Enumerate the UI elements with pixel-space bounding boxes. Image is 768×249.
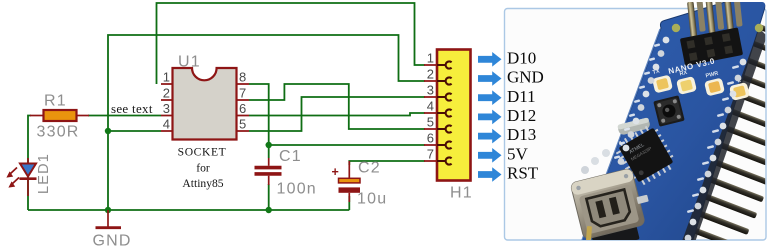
svg-text:2: 2 bbox=[163, 86, 170, 101]
svg-text:4: 4 bbox=[427, 99, 434, 114]
USB solder tab pads bbox=[602, 149, 610, 157]
wire net VCC: U1 pin8 down to C1 and H1 pin6 bbox=[249, 84, 269, 158]
arrow GND bbox=[478, 71, 502, 86]
mini USB connector bbox=[570, 168, 648, 249]
ATmega chip bbox=[612, 122, 679, 189]
IC socket U1 bbox=[161, 54, 249, 191]
resistor R1 bbox=[30, 93, 89, 141]
crystal oscillator bbox=[617, 117, 651, 135]
svg-text:R1: R1 bbox=[44, 93, 67, 110]
svg-text:+: + bbox=[332, 165, 339, 179]
svg-text:7: 7 bbox=[427, 147, 434, 162]
photo frame bbox=[505, 9, 767, 241]
tactile button bbox=[653, 95, 685, 127]
svg-text:RST: RST bbox=[507, 164, 539, 183]
header plastic strip under right edge bbox=[681, 28, 767, 248]
H1 pin numbers bbox=[427, 51, 434, 162]
svg-text:7: 7 bbox=[239, 86, 246, 101]
board left edge highlight bbox=[579, 29, 660, 248]
arrow D12 bbox=[478, 110, 502, 125]
svg-text:H1: H1 bbox=[450, 185, 473, 202]
svg-text:U1: U1 bbox=[178, 54, 201, 71]
H1 pin sockets bbox=[437, 61, 452, 164]
svg-text:for: for bbox=[196, 162, 210, 175]
svg-text:SOCKET: SOCKET bbox=[178, 146, 227, 159]
svg-text:D12: D12 bbox=[507, 106, 536, 125]
node junction C1/rail bbox=[266, 207, 272, 213]
svg-text:see text: see text bbox=[111, 101, 153, 116]
svg-text:1: 1 bbox=[163, 70, 170, 85]
wire U1 pin4 to GND vertical bbox=[108, 130, 161, 132]
svg-text:4: 4 bbox=[163, 117, 170, 132]
capacitor C2 (polarized) bbox=[332, 160, 388, 208]
ground symbol GND bbox=[93, 210, 132, 249]
LED1 bbox=[6, 153, 52, 196]
arrow D10 bbox=[478, 52, 502, 67]
U1 value text bbox=[178, 146, 227, 191]
svg-text:Attiny85: Attiny85 bbox=[182, 177, 223, 190]
wire net GND top: to H1 pin2 bbox=[108, 35, 425, 210]
svg-text:1: 1 bbox=[427, 51, 434, 66]
svg-text:8: 8 bbox=[239, 70, 246, 85]
mounting hole top-left bbox=[672, 24, 680, 32]
svg-text:3: 3 bbox=[163, 101, 170, 116]
silkscreen specks bbox=[614, 43, 739, 213]
svg-text:5: 5 bbox=[427, 115, 434, 130]
node junction GND/pin4 bbox=[105, 128, 111, 134]
svg-text:D13: D13 bbox=[507, 125, 536, 144]
node junction GND rail bbox=[105, 207, 111, 213]
wire net D13: U1 pin7 to H1 pin5 bbox=[249, 84, 425, 129]
Arduino Nano photo approximation bbox=[570, 0, 768, 249]
wire GND rail bottom bbox=[28, 209, 349, 211]
ICSP block on board bbox=[680, 27, 743, 66]
svg-text:C1: C1 bbox=[279, 148, 302, 165]
wire net RST: C2 top to H1 pin7 bbox=[349, 161, 425, 165]
wire net D10: U1 pin1 to H1 pin1 bbox=[157, 3, 426, 84]
arrow 5V bbox=[478, 148, 502, 163]
LED labels bbox=[652, 68, 742, 84]
svg-text:6: 6 bbox=[427, 131, 434, 146]
connector H1 bbox=[424, 50, 473, 202]
arrow D13 bbox=[478, 129, 502, 144]
svg-text:5: 5 bbox=[239, 117, 246, 132]
svg-text:100n: 100n bbox=[277, 181, 317, 198]
wire C1 bottom to rail bbox=[268, 184, 270, 210]
LEDs bbox=[652, 75, 750, 101]
arrow D11 bbox=[478, 90, 502, 105]
mounting hole top-right bbox=[755, 24, 763, 32]
svg-text:2: 2 bbox=[427, 67, 434, 82]
capacitor C1 bbox=[255, 148, 317, 198]
pin name labels bbox=[507, 48, 544, 182]
svg-text:LED1: LED1 bbox=[36, 153, 52, 194]
wire LED branch left bbox=[28, 116, 31, 211]
right pad column bbox=[685, 59, 747, 242]
wire net D11: U1 pin5 to H1 pin3 bbox=[249, 97, 425, 131]
node junction VCC/C1 bbox=[266, 142, 272, 148]
svg-text:C2: C2 bbox=[358, 160, 381, 177]
wire C2 bottom to rail bbox=[348, 196, 350, 210]
U1 pin numbers bbox=[163, 70, 246, 132]
svg-text:GND: GND bbox=[93, 233, 132, 249]
svg-text:10u: 10u bbox=[357, 191, 387, 208]
right header pins bbox=[692, 23, 768, 249]
PCB board bbox=[579, 0, 768, 249]
left pad column bbox=[613, 37, 670, 179]
arrow RST bbox=[478, 167, 502, 182]
smd part right of usb bbox=[636, 195, 648, 204]
svg-text:6: 6 bbox=[239, 101, 246, 116]
stray gold pin bottom bbox=[586, 226, 592, 246]
svg-text:D11: D11 bbox=[507, 87, 536, 106]
svg-text:D10: D10 bbox=[507, 48, 536, 67]
svg-text:GND: GND bbox=[507, 68, 544, 87]
svg-text:330R: 330R bbox=[37, 124, 80, 141]
svg-text:3: 3 bbox=[427, 83, 434, 98]
wire see text: R1 to U1 pin3 bbox=[88, 115, 161, 117]
svg-text:5V: 5V bbox=[507, 144, 529, 163]
wire net D12: U1 pin6 to H1 pin4 bbox=[249, 113, 425, 116]
